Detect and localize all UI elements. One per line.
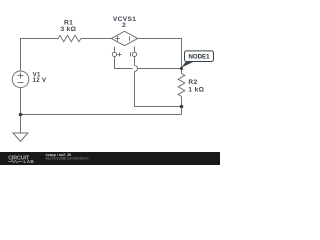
wire bottom horizontal xyxy=(21,114,182,116)
VCVS1 control stub right xyxy=(134,47,136,52)
svg-text:http://circuitlab.com/c6x4km2n: http://circuitlab.com/c6x4km2n xyxy=(46,157,89,161)
svg-text:2: 2 xyxy=(122,22,126,29)
V1 minus sign xyxy=(18,82,24,84)
wire control plus down xyxy=(115,57,133,69)
wire between R1 and VCVS1 xyxy=(81,38,111,40)
node junction dot R2 bottom xyxy=(180,105,184,109)
svg-text:R2: R2 xyxy=(188,79,197,86)
wire V1 bottom to ground xyxy=(20,88,22,133)
svg-text:3 kΩ: 3 kΩ xyxy=(60,26,76,33)
VCVS1 control stub left xyxy=(114,47,116,52)
resistor R1 xyxy=(58,35,81,41)
svg-text:12 V: 12 V xyxy=(33,78,47,84)
control plus label xyxy=(118,54,122,56)
wire hop arc xyxy=(135,66,138,72)
VCVS1 control terminal circle plus xyxy=(112,52,116,56)
footer bar xyxy=(0,152,220,165)
svg-text:LAB: LAB xyxy=(24,159,35,164)
VCVS1 minus bar inside xyxy=(129,36,131,41)
wire VCVS1 to right vertical xyxy=(138,39,182,74)
node NODE1 flag pointer xyxy=(181,61,194,67)
svg-text:1 kΩ: 1 kΩ xyxy=(188,86,204,93)
node junction dot left xyxy=(19,113,23,117)
control minus bar label xyxy=(130,52,132,56)
wire top left horizontal segment xyxy=(21,39,59,72)
node junction dot NODE1 xyxy=(180,67,183,70)
wire control minus down upper part xyxy=(134,57,136,66)
wire control plus to right vertical xyxy=(137,68,181,70)
VCVS1 diamond body xyxy=(111,31,137,45)
wire control minus down lower part xyxy=(135,72,182,107)
node NODE1 flag box xyxy=(185,51,214,62)
wire R2 bottom lead xyxy=(181,97,183,115)
resistor R2 xyxy=(178,74,185,97)
ground symbol xyxy=(13,133,28,142)
op V1 source circle xyxy=(12,71,29,88)
VCVS1 control terminal circle minus xyxy=(132,52,136,56)
VCVS1 plus sign inside xyxy=(115,38,119,40)
footer logo resistor line xyxy=(8,160,22,162)
svg-text:NODE1: NODE1 xyxy=(189,54,211,61)
V1 plus sign xyxy=(18,75,24,77)
